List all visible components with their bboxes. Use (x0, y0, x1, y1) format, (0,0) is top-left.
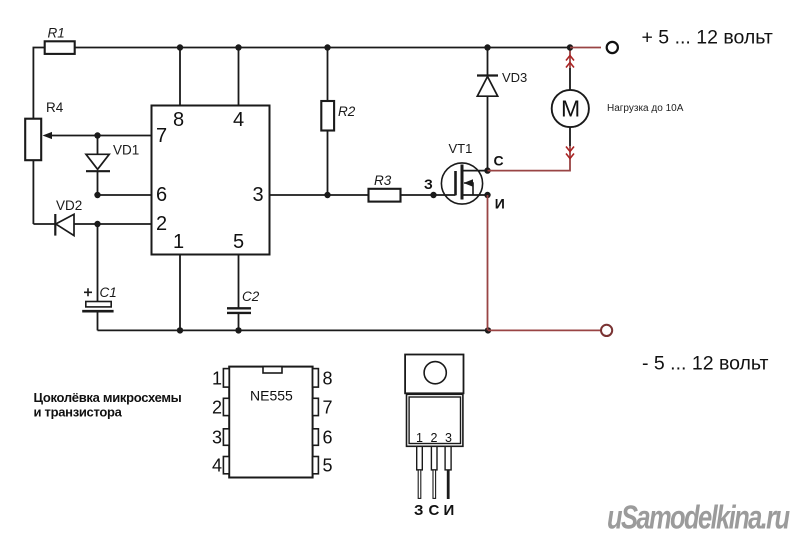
DIP notch (263, 367, 282, 373)
svg-text:5: 5 (233, 231, 244, 253)
diode VD1 (86, 136, 110, 196)
diode VD3 (477, 48, 498, 171)
svg-text:R2: R2 (338, 104, 356, 119)
svg-text:R1: R1 (48, 26, 65, 41)
svg-text:З: З (414, 502, 423, 519)
terminal: negative output circle (601, 325, 612, 336)
resistor R2 (321, 101, 334, 131)
wire: pin 5 to C2 (238, 255, 240, 309)
wire: pin 1 to bottom rail (179, 255, 181, 331)
transistor VT1 (MOSFET) (441, 163, 487, 204)
svg-text:Цоколёвка микросхемы: Цоколёвка микросхемы (34, 390, 182, 405)
DIP pin 3 pad (223, 429, 229, 446)
diode VD2 (33, 214, 151, 236)
capacitor C1 (82, 288, 113, 330)
wire: red drain to motor (488, 146, 571, 171)
svg-text:7: 7 (323, 398, 333, 418)
DIP pin 8 pad (313, 369, 319, 388)
svg-text:VD2: VD2 (56, 198, 82, 213)
svg-text:Нагрузка до 10А: Нагрузка до 10А (607, 103, 684, 114)
wire: motor bottom lead (569, 127, 571, 146)
svg-text:R3: R3 (374, 173, 392, 188)
transistor package TO-220 tab (405, 355, 463, 394)
wire: pin 6 lead (98, 194, 152, 196)
junction: motor rail (567, 44, 573, 50)
svg-text:4: 4 (212, 456, 222, 476)
junction: pin6 node (94, 192, 100, 198)
junction: pin1 bottom (177, 327, 183, 333)
arrows: current up (566, 56, 574, 68)
node И (source) (484, 192, 490, 198)
motor M1 (552, 90, 589, 127)
TO-220 lead 3 upper (445, 446, 451, 470)
svg-text:2: 2 (156, 213, 167, 235)
svg-text:6: 6 (156, 184, 167, 206)
svg-text:M: M (561, 96, 580, 122)
svg-text:4: 4 (233, 109, 244, 131)
wire: red rail to arrows (569, 48, 571, 69)
svg-text:И: И (495, 196, 505, 212)
IC package NE555 DIP-8 body (229, 367, 312, 478)
svg-text:3: 3 (253, 184, 264, 206)
TO-220 mounting hole (424, 362, 446, 384)
potentiometer R4 (25, 119, 41, 161)
svg-text:C1: C1 (100, 285, 117, 300)
svg-text:C2: C2 (242, 289, 260, 304)
junction: R2 rail (324, 44, 330, 50)
wire: bottom rail (98, 329, 489, 331)
junction: source to negative rail (485, 327, 491, 333)
wire: R3 to gate (401, 194, 456, 196)
DIP pin 2 pad (223, 398, 229, 415)
wire: R2 top lead (327, 48, 329, 102)
svg-text:+ 5 ... 12 вольт: + 5 ... 12 вольт (642, 27, 773, 49)
terminal: positive output circle (607, 42, 618, 53)
arrows: current down to motor (566, 147, 574, 159)
node C (drain) (484, 167, 490, 173)
svg-text:uSamodelkina.ru: uSamodelkina.ru (607, 499, 790, 536)
svg-text:и транзистора: и транзистора (34, 405, 123, 420)
TO-220 lead 1 upper (417, 446, 423, 470)
wire: motor top lead (569, 68, 571, 90)
svg-text:NE555: NE555 (250, 388, 293, 404)
svg-text:1: 1 (173, 231, 184, 253)
junction: gate node (430, 192, 436, 198)
svg-text:- 5 ... 12 вольт: - 5 ... 12 вольт (642, 353, 769, 375)
svg-text:7: 7 (156, 125, 167, 147)
junction: pin7 / VD1 top (94, 132, 100, 138)
junction: pin2 node (94, 221, 100, 227)
svg-text:R4: R4 (46, 100, 64, 115)
wire: left drop from R1 to R4 (33, 48, 44, 119)
svg-text:VD1: VD1 (113, 143, 139, 158)
junction: VD3 rail (484, 44, 490, 50)
DIP pin 5 pad (313, 457, 319, 474)
wire: pin 4 to rail (238, 48, 240, 106)
svg-text:1: 1 (212, 369, 222, 389)
TO-220 lead 2 wire (433, 470, 436, 499)
DIP pin 6 pad (313, 429, 319, 446)
svg-text:2: 2 (212, 398, 222, 418)
svg-text:И: И (444, 502, 455, 519)
DIP pin 7 pad (313, 398, 319, 415)
TO-220 body inner (409, 397, 460, 444)
wire: R4 bottom lead (32, 160, 34, 224)
wire: pin 3 output (270, 194, 369, 196)
svg-text:2: 2 (431, 431, 438, 445)
svg-text:8: 8 (173, 109, 184, 131)
TO-220 body outer (407, 394, 463, 446)
TO-220 lead 2 upper (431, 446, 437, 470)
TO-220 lead 3 wire (447, 470, 450, 499)
DIP pin 4 pad (223, 457, 229, 474)
wire: red to plus terminal (570, 47, 601, 49)
svg-text:С: С (429, 502, 440, 519)
label: pinout caption (34, 390, 182, 420)
svg-text:VD3: VD3 (502, 70, 527, 85)
wire: R2 bottom lead (327, 131, 329, 196)
TO-220 lead 1 wire (418, 470, 421, 499)
svg-text:З: З (424, 176, 433, 192)
resistor R3 (369, 189, 401, 202)
svg-text:С: С (494, 153, 504, 169)
wire: pin 8 to rail (179, 48, 181, 106)
svg-text:1: 1 (416, 431, 423, 445)
junction: pin8 rail (177, 44, 183, 50)
junction: R2 bottom (324, 192, 330, 198)
wire: node to C1 (97, 224, 99, 302)
svg-text:6: 6 (323, 428, 333, 448)
junction: pin4 rail (235, 44, 241, 50)
wire: pin 7 lead to R4 wiper (52, 135, 152, 137)
junction: pin5 bottom (235, 327, 241, 333)
svg-text:VT1: VT1 (449, 141, 473, 156)
op-amp U1: NE555 IC body (152, 106, 270, 255)
R4 wiper arrow (43, 132, 53, 139)
wire: red negative lead (488, 329, 601, 331)
DIP pin 1 pad (223, 369, 229, 388)
svg-text:3: 3 (212, 428, 222, 448)
wire: top rail from R1 to motor node (75, 47, 570, 49)
svg-text:3: 3 (445, 431, 452, 445)
svg-text:5: 5 (323, 456, 333, 476)
svg-text:8: 8 (323, 369, 333, 389)
resistor R1 (45, 41, 75, 54)
capacitor C2 (227, 308, 251, 330)
wire: source down red (487, 195, 489, 330)
